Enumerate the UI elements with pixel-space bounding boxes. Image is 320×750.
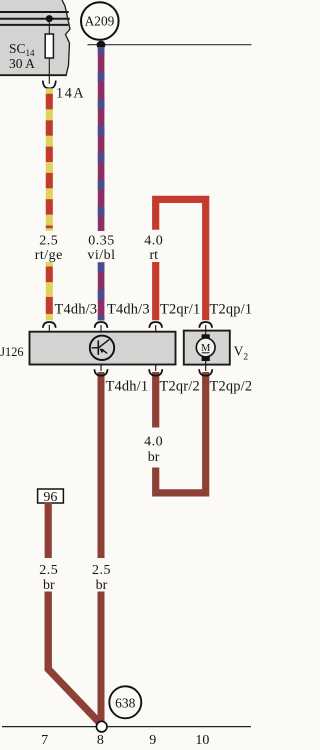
wire br from 96 upper segment (45, 503, 52, 558)
wire from A209 (thin horizontal) (88, 44, 252, 46)
svg-text:T4dh/3: T4dh/3 (55, 302, 98, 318)
svg-text:vi/bl: vi/bl (87, 248, 115, 263)
svg-text:0.35: 0.35 (88, 234, 115, 249)
wire vi/bl upper segment (98, 47, 105, 231)
svg-text:rt: rt (150, 248, 159, 263)
svg-text:30 A: 30 A (9, 56, 35, 71)
wire 4.0 rt loop (upper) (156, 199, 206, 320)
wire vi/bl lower segment (98, 262, 105, 320)
connector cup T2qp/2 (205, 365, 207, 371)
svg-text:V2: V2 (234, 343, 249, 362)
terminal box 96 (38, 489, 64, 503)
svg-text:T2qp/1: T2qp/1 (210, 302, 253, 318)
svg-text:M: M (201, 343, 211, 354)
svg-text:T2qp/2: T2qp/2 (210, 379, 253, 395)
svg-text:7: 7 (41, 733, 48, 748)
connector arch T2qp/1 (199, 322, 212, 328)
wire rt/ge upper segment (46, 88, 53, 231)
motor pin leads (205, 331, 207, 335)
connector cup T4dh/1 (100, 365, 102, 371)
ground reference line (2, 726, 251, 728)
busbar rail 1 (0, 11, 69, 13)
wire 4.0 br loop upper piece (152, 372, 159, 428)
control symbol (circle with arrow) in J126 (90, 336, 114, 360)
svg-text:br: br (96, 578, 108, 593)
wire br from 96 lower segment with bend to ground (48, 592, 99, 723)
svg-text:2.5: 2.5 (92, 563, 111, 578)
svg-text:T4dh/3: T4dh/3 (107, 302, 150, 318)
wire 4.0 rt lower piece (152, 262, 159, 320)
connector terminal 14A (cup) (43, 81, 56, 89)
busbar rail 2 (0, 18, 70, 20)
svg-text:2.5: 2.5 (39, 234, 58, 249)
motor brush bottom (202, 356, 210, 361)
svg-text:10: 10 (195, 733, 209, 748)
ground point label circle 638 (109, 686, 141, 718)
svg-text:br: br (148, 450, 160, 465)
junction dot on rail 2 (46, 15, 53, 22)
svg-text:638: 638 (115, 695, 136, 710)
svg-text:A209: A209 (85, 14, 115, 29)
fuse SC14 body (45, 34, 53, 58)
svg-text:rt/ge: rt/ge (35, 248, 63, 263)
fuse box SC14 (fuse holder, torn continuation edge) (0, 0, 70, 76)
svg-text:T2qr/1: T2qr/1 (160, 302, 200, 318)
wire br from T4dh/1 lower segment (98, 592, 105, 722)
terminal circle A209 (81, 2, 119, 40)
fuse lead wire (48, 19, 50, 84)
svg-text:br: br (43, 578, 55, 593)
svg-text:9: 9 (149, 733, 156, 748)
svg-text:14A: 14A (56, 86, 85, 102)
svg-text:4.0: 4.0 (144, 234, 163, 249)
motor circle M (196, 338, 215, 357)
connector cup T2qr/2 (155, 365, 157, 371)
control unit J126 box (30, 332, 176, 365)
blower motor V2 box (184, 331, 230, 365)
svg-text:T4dh/1: T4dh/1 (106, 379, 149, 395)
ground junction circle (96, 721, 107, 732)
connector arch T4dh/3 (wire 1) (43, 322, 56, 328)
svg-text:2.5: 2.5 (39, 563, 58, 578)
svg-text:8: 8 (97, 733, 104, 748)
node dot under A209 (97, 41, 106, 50)
connector arch T4dh/3 (wire 2) (95, 322, 108, 328)
wire rt/ge lower segment (46, 262, 53, 320)
wire 4.0 br loop (lower) (156, 372, 206, 493)
wire br from T4dh/1 upper segment (98, 372, 105, 558)
svg-text:4.0: 4.0 (144, 435, 163, 450)
motor brush top (202, 334, 210, 339)
connector arch T2qr/1 (149, 322, 162, 328)
svg-text:T2qr/2: T2qr/2 (160, 379, 200, 395)
busbar rail 3 (0, 24, 68, 26)
svg-text:J126: J126 (0, 345, 23, 359)
